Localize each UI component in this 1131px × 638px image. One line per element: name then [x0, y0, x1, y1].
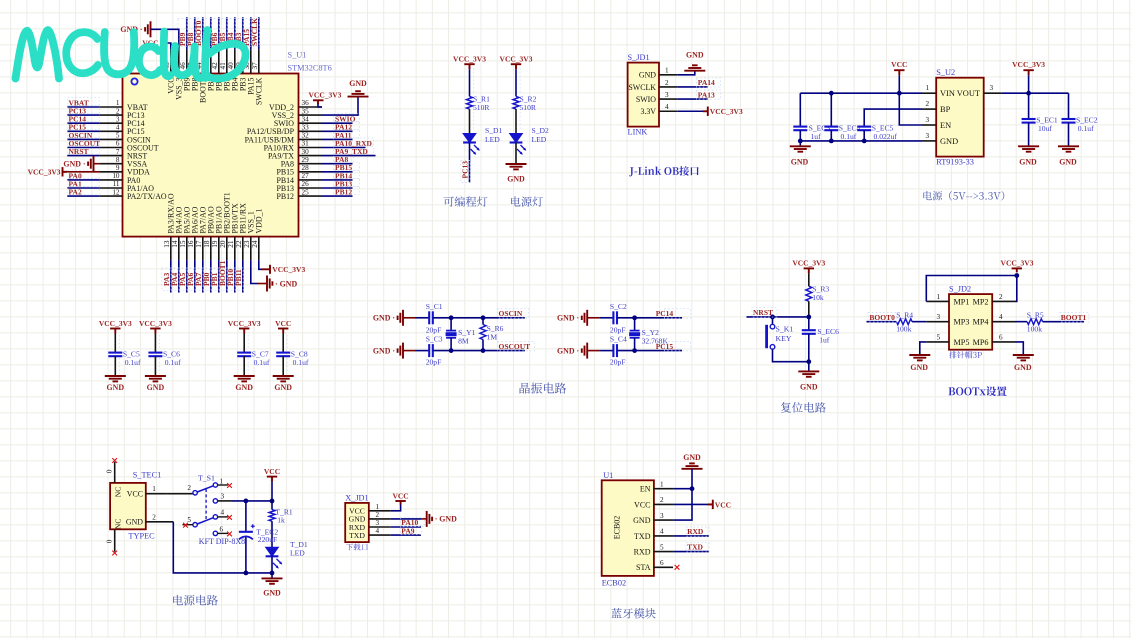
svg-text:VCC: VCC [264, 467, 280, 476]
svg-text:GND ·: GND · [373, 346, 395, 355]
svg-text:GND: GND [686, 51, 704, 60]
resistor S_R5 100k [1027, 311, 1044, 334]
svg-text:0.1uf: 0.1uf [165, 358, 181, 367]
svg-text:RXD: RXD [634, 548, 651, 557]
MCU pin 29 (PA8) [281, 156, 322, 169]
wire [218, 500, 232, 502]
S_U2 pin 3 (VOUT) [957, 84, 1001, 98]
svg-text:VCC_3V3: VCC_3V3 [272, 265, 305, 274]
U1 pin 2 (VCC) [634, 496, 673, 509]
svg-text:8M: 8M [458, 337, 469, 346]
svg-text:S_C2: S_C2 [610, 302, 627, 311]
wire [67, 155, 99, 157]
connector S_TEC1 TYPEC body [110, 483, 146, 529]
resistor S_R4 100k [896, 311, 913, 334]
svg-text:MP4: MP4 [973, 318, 989, 327]
junction [1014, 273, 1019, 278]
wire [673, 488, 692, 490]
power flag VCC (bluetooth) [708, 500, 713, 509]
svg-text:ECB02: ECB02 [613, 516, 622, 540]
svg-text:GND ·: GND · [557, 346, 579, 355]
svg-text:30: 30 [302, 148, 310, 156]
svg-text:LED: LED [532, 135, 547, 144]
svg-text:10: 10 [112, 172, 120, 180]
ground (EC2) [1058, 146, 1079, 151]
LED S_D2 [510, 126, 549, 155]
svg-text:PA2/TX/AO: PA2/TX/AO [127, 192, 167, 201]
U1 pin 5 (RXD) [634, 543, 673, 556]
MCU pin 44 (BOOT0) [195, 49, 208, 103]
wire [403, 350, 415, 352]
wire (NRST) [747, 316, 809, 318]
svg-text:GND ·: GND · [557, 314, 579, 323]
svg-text:1: 1 [926, 84, 930, 92]
svg-text:27: 27 [302, 172, 310, 180]
U1 pin 6 (STA) [636, 559, 673, 572]
wire [322, 138, 353, 140]
wire [515, 69, 517, 96]
wire [469, 109, 471, 133]
svg-text:RXD: RXD [687, 527, 704, 536]
junction [244, 499, 249, 504]
svg-text:4: 4 [116, 124, 120, 132]
wire [163, 43, 171, 49]
svg-text:VCC_3V3: VCC_3V3 [309, 91, 342, 100]
MCU pin 35 (VSS_2) [272, 107, 322, 120]
MCUclub logo [16, 30, 246, 79]
X_JD1 pin 4 (TXD) [349, 527, 391, 540]
junction [770, 315, 775, 320]
wire [318, 103, 322, 107]
svg-text:MP3: MP3 [954, 318, 970, 327]
wire [322, 155, 376, 157]
svg-text:1: 1 [660, 481, 664, 489]
svg-text:510R: 510R [520, 103, 537, 112]
S_TEC1 shell pin top (0) [106, 458, 118, 483]
resistor S_R3 10k [806, 284, 830, 302]
capacitor S_C1 20pF [426, 302, 443, 334]
wire [322, 147, 366, 149]
wire [587, 350, 599, 352]
svg-text:NRST: NRST [753, 308, 773, 317]
MCU pin 4 (PC15) [99, 124, 144, 137]
wire [433, 317, 525, 319]
no-connect (STA) [675, 565, 680, 570]
resistor S_R2 510R [513, 94, 537, 112]
svg-text:29: 29 [302, 156, 310, 164]
module U1 ECB02 body [602, 480, 654, 576]
resistor T_R1 1k [269, 501, 293, 525]
svg-text:S_TEC1: S_TEC1 [133, 470, 162, 479]
svg-text:GND: GND [126, 518, 143, 527]
S_JD1 pin 4 (3.3V) [640, 103, 677, 116]
svg-text:S_R2: S_R2 [520, 94, 537, 103]
wire [1016, 321, 1028, 323]
junction [897, 91, 902, 96]
MCU pin 40 (PB4) [227, 49, 240, 91]
wire [322, 171, 353, 173]
S_TEC1 shell pin bottom (0) [106, 529, 118, 555]
wire [210, 260, 212, 292]
wire [234, 17, 236, 49]
svg-text:VCC: VCC [891, 60, 907, 69]
LED S_D1 [463, 126, 502, 155]
svg-text:SWCLK: SWCLK [628, 83, 656, 92]
svg-text:STA: STA [636, 563, 651, 572]
ground (S_JD2 pin5) [909, 355, 930, 360]
MCU pin 43 (PB7) [203, 49, 216, 91]
wire [867, 321, 897, 323]
S_JD2 pin 6 (MP6) [973, 333, 1016, 347]
capacitor S_EC2 0.1uf [1062, 93, 1098, 146]
caption 电源灯 [511, 196, 543, 206]
svg-text:10uf: 10uf [1038, 124, 1052, 133]
wire [67, 138, 99, 140]
svg-text:GND: GND [235, 383, 253, 392]
wire [194, 260, 196, 292]
svg-text:S_C3: S_C3 [426, 335, 443, 344]
wire (bottom rail) [173, 522, 272, 573]
S_JD1 pin 1 (GND) [639, 67, 678, 80]
svg-text:5: 5 [116, 132, 120, 140]
svg-text:4: 4 [376, 527, 380, 535]
wire [151, 29, 179, 49]
svg-text:8: 8 [116, 156, 120, 164]
svg-text:6: 6 [999, 333, 1003, 341]
stub + no-connect pin4 [218, 516, 228, 518]
svg-text:GND: GND [147, 383, 165, 392]
MCU pin 9 (VDDA) [99, 164, 150, 177]
wire [617, 350, 682, 352]
svg-text:15: 15 [179, 240, 187, 248]
ground (J-Link pin1) [684, 65, 705, 70]
svg-text:GND: GND [1019, 157, 1037, 166]
capacitor S_C7 0.1uf [237, 350, 270, 376]
svg-text:4: 4 [665, 103, 669, 111]
svg-text:VIN: VIN [940, 89, 955, 98]
wire [242, 17, 244, 49]
svg-text:40: 40 [227, 62, 235, 70]
svg-text:12: 12 [112, 188, 120, 196]
svg-text:14: 14 [171, 240, 179, 248]
capacitor T_EC2 220uF [239, 501, 278, 573]
svg-text:VCC_3V3: VCC_3V3 [228, 319, 261, 328]
svg-text:GND: GND [639, 71, 656, 80]
svg-text:GND: GND [800, 383, 818, 392]
svg-text:U1: U1 [603, 471, 613, 480]
wire [469, 69, 471, 96]
MCU pin 18 (PB0/AO) [203, 206, 216, 260]
svg-text:20: 20 [219, 240, 227, 248]
svg-text:3: 3 [660, 512, 664, 520]
svg-text:MP1: MP1 [954, 297, 970, 306]
svg-text:S_JD2: S_JD2 [949, 285, 971, 294]
svg-text:0.1uf: 0.1uf [1078, 124, 1094, 133]
svg-text:6: 6 [116, 140, 120, 148]
svg-text:100k: 100k [1027, 325, 1042, 334]
svg-text:X_JD1: X_JD1 [345, 494, 369, 503]
svg-text:36: 36 [302, 99, 310, 107]
ground (power input) [262, 578, 283, 583]
svg-text:24: 24 [251, 240, 259, 248]
svg-text:SWCLK: SWCLK [255, 77, 264, 105]
junction [270, 499, 275, 504]
svg-text:VCC: VCC [275, 319, 291, 328]
svg-text:6: 6 [660, 559, 664, 567]
svg-text:3.3V: 3.3V [640, 107, 656, 116]
wire (VCC to EN) [899, 93, 922, 125]
wire [617, 317, 682, 319]
S_JD2 pin 1 (MP1) [926, 293, 969, 307]
svg-text:5: 5 [187, 516, 191, 524]
wire [67, 122, 99, 124]
LED T_D1 [266, 540, 308, 569]
svg-text:3: 3 [221, 492, 225, 500]
wire [271, 521, 273, 547]
svg-text:4: 4 [660, 528, 664, 536]
capacitor S_EC1 10uf [1022, 93, 1058, 146]
wire [391, 504, 401, 511]
svg-text:PC13: PC13 [461, 161, 470, 179]
capacitor S_C6 0.1uf [148, 350, 181, 376]
MCU pin 25 (PB12) [276, 188, 322, 201]
wire (pin1 loop to VCC) [926, 276, 1017, 302]
svg-text:S_R5: S_R5 [1027, 311, 1044, 320]
MCU pin 16 (PA6/AO) [187, 206, 200, 260]
wire [678, 98, 708, 100]
MCU pin 37 (SWCLK) [251, 49, 264, 105]
S_TEC1 pin 2 (GND) [126, 513, 173, 526]
wire [67, 147, 99, 149]
svg-text:510R: 510R [473, 103, 490, 112]
connector S_JD1 (J-Link OB) body [628, 63, 659, 127]
svg-text:4: 4 [221, 508, 225, 516]
capacitor S_EC3 1uf [793, 93, 830, 146]
svg-text:STM32C8T6: STM32C8T6 [288, 64, 332, 73]
svg-text:0.1uf: 0.1uf [841, 132, 857, 141]
svg-text:0: 0 [106, 539, 114, 543]
svg-text:VCC: VCC [127, 490, 143, 499]
svg-text:PA2: PA2 [69, 188, 82, 197]
svg-text:3: 3 [990, 84, 994, 92]
junction [449, 348, 454, 353]
wire [170, 260, 172, 292]
wire [67, 179, 99, 181]
MCU pin 46 (PB9) [179, 49, 192, 91]
svg-text:1uf: 1uf [819, 335, 830, 344]
svg-text:16: 16 [187, 240, 195, 248]
svg-text:0.022uf: 0.022uf [874, 132, 898, 141]
ground (EC3) [790, 146, 811, 151]
svg-text:VCC_3V3: VCC_3V3 [710, 107, 743, 116]
ground (S_C7) [234, 376, 255, 381]
svg-text:GND: GND [910, 363, 928, 372]
svg-text:RT9193-33: RT9193-33 [936, 158, 974, 167]
wire [322, 187, 353, 189]
wire [258, 17, 260, 49]
stub + no-connect pin5 [183, 524, 193, 526]
svg-text:VCC: VCC [715, 500, 731, 509]
wire [808, 362, 810, 372]
wire [678, 71, 695, 75]
resistor S_R1 510R [467, 94, 491, 112]
svg-text:S_U1: S_U1 [288, 51, 307, 60]
caption 电源电路 [173, 595, 218, 606]
svg-text:LED: LED [485, 135, 500, 144]
MCU pin 28 (PB15) [276, 164, 322, 177]
svg-text:TXD: TXD [634, 532, 651, 541]
svg-text:VDD_1: VDD_1 [255, 208, 264, 233]
junction [632, 348, 637, 353]
wire [154, 334, 156, 353]
svg-text:T_S1: T_S1 [198, 473, 215, 482]
svg-text:2: 2 [999, 293, 1003, 301]
MCU pin 3 (PC14) [99, 115, 144, 128]
junction [481, 348, 486, 353]
svg-text:BOOT0: BOOT0 [869, 313, 895, 322]
svg-text:GND ·: GND · [373, 314, 395, 323]
MCU pin 7 (NRST) [99, 148, 147, 161]
wire [218, 17, 220, 49]
svg-text:GND: GND [683, 453, 701, 462]
wire [898, 75, 900, 93]
svg-text:2: 2 [152, 513, 156, 521]
svg-text:NC: NC [114, 519, 123, 530]
svg-text:1: 1 [376, 503, 380, 511]
svg-text:9: 9 [116, 164, 120, 172]
MCU pin-1 indicator circle [131, 78, 137, 84]
MCU pin 23 (VSS_1) [243, 211, 256, 260]
X_JD1 pin 3 (RXD) [349, 519, 391, 532]
wire [808, 273, 810, 286]
svg-text:5: 5 [937, 333, 941, 341]
junction [270, 571, 275, 576]
svg-text:LINK: LINK [628, 128, 648, 137]
caption 蓝牙模块 [611, 608, 655, 618]
svg-text:S_JD1: S_JD1 [628, 53, 650, 62]
wire [403, 317, 415, 319]
U1 pin 3 (GND) [633, 512, 673, 525]
wire [322, 163, 353, 165]
wire [271, 573, 273, 579]
svg-text:2: 2 [187, 484, 191, 492]
wire [920, 342, 927, 355]
wire [808, 301, 810, 317]
svg-text:10k: 10k [812, 293, 824, 302]
S_JD2 pin 5 (MP5) [926, 333, 969, 347]
wire [178, 260, 180, 292]
MCU pin 14 (PA4/AO) [171, 206, 184, 260]
svg-text:EN: EN [640, 485, 651, 494]
junction [806, 359, 811, 364]
wire (BP to EC5) [864, 109, 922, 127]
ground (MCU VSS_3) [145, 21, 150, 37]
svg-text:1M: 1M [487, 332, 498, 341]
svg-text:OSCIN: OSCIN [499, 309, 523, 318]
svg-text:GND: GND [274, 383, 292, 392]
wire [773, 349, 809, 362]
svg-text:19: 19 [211, 240, 219, 248]
X_JD1 pin 1 (VCC) [349, 503, 391, 516]
wire [226, 17, 228, 49]
capacitor S_C8 0.1uf [276, 350, 309, 376]
svg-text:0: 0 [106, 469, 114, 473]
S_JD1 pin 2 (SWCLK) [628, 79, 677, 92]
wire [391, 518, 422, 520]
svg-text:33: 33 [302, 124, 310, 132]
wire [166, 493, 193, 495]
caption 晶振电路 [520, 383, 567, 394]
MCU pin 20 (PB2/BOOT1) [219, 192, 232, 260]
wire [250, 17, 252, 49]
wire [210, 17, 212, 49]
svg-text:TXD: TXD [349, 531, 365, 540]
S_JD2 pin 3 (MP3) [926, 313, 969, 327]
wire [271, 482, 273, 501]
svg-text:· GND: · GND [275, 279, 297, 288]
wire [251, 260, 258, 283]
wire [242, 260, 244, 292]
wire [67, 130, 99, 132]
svg-text:2: 2 [665, 79, 669, 87]
wire (gnd vertical) [673, 469, 692, 520]
svg-text:EN: EN [940, 121, 951, 130]
wire [202, 260, 204, 292]
wire [282, 334, 284, 353]
MCU pin 27 (PB14) [276, 172, 322, 185]
wire [422, 518, 427, 520]
wire [1016, 342, 1024, 355]
svg-text:GND: GND [791, 157, 809, 166]
wire [391, 534, 421, 536]
MCU pin 21 (PB10/TX) [227, 203, 240, 260]
wire [234, 260, 236, 292]
ground (S_C8) [273, 376, 294, 381]
ground (S_C6) [145, 376, 166, 381]
MCU pin 34 (SWIO) [274, 115, 322, 128]
MCU pin 11 (PA1/AO) [99, 180, 154, 193]
power flag VCC_3V3 (J-Link 3.3V) [703, 107, 708, 116]
power flag VCC_3V3 (MCU VDD_1) [262, 265, 271, 274]
svg-text:VCC_3V3: VCC_3V3 [28, 168, 61, 177]
wire [67, 195, 99, 197]
ground (S_C5) [105, 376, 126, 381]
svg-text:6: 6 [220, 525, 224, 533]
svg-text:S_R3: S_R3 [812, 284, 829, 293]
junction [829, 139, 834, 144]
MCU pin 8 (VSSA) [99, 156, 147, 169]
wire [912, 321, 926, 323]
svg-text:46: 46 [179, 62, 187, 70]
dotted highlight marks [68, 19, 1089, 552]
svg-text:4: 4 [999, 313, 1003, 321]
svg-text:LED: LED [290, 549, 305, 558]
svg-text:20pF: 20pF [426, 358, 442, 367]
power flag VCC_3V3 (MCU VDD_2) [313, 100, 324, 104]
ground (PC15 cap) [582, 343, 587, 359]
ground (MCU VSS_1) [267, 276, 272, 292]
svg-text:GND: GND [263, 588, 281, 597]
junction [862, 139, 867, 144]
svg-text:SWIO: SWIO [636, 95, 656, 104]
svg-text:32: 32 [302, 132, 310, 140]
svg-text:KFT DIP-8X8: KFT DIP-8X8 [199, 537, 245, 546]
svg-text:VCC_3V3: VCC_3V3 [99, 319, 132, 328]
svg-text:BP: BP [940, 105, 951, 114]
wire [322, 97, 358, 116]
svg-text:S_R1: S_R1 [473, 94, 490, 103]
MCU pin 42 (PB6) [211, 49, 224, 91]
